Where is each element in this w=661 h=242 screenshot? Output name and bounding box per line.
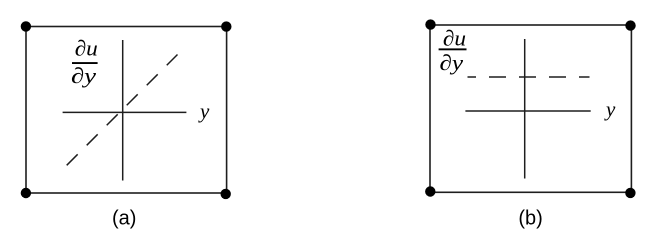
svg-text:(b): (b)	[518, 207, 542, 229]
svg-text:∂y: ∂y	[71, 63, 96, 88]
svg-text:y: y	[604, 97, 616, 121]
svg-text:∂u: ∂u	[75, 36, 98, 61]
svg-text:(a): (a)	[112, 207, 136, 229]
svg-text:∂y: ∂y	[439, 50, 463, 75]
svg-text:∂u: ∂u	[443, 26, 466, 51]
svg-text:y: y	[198, 99, 210, 123]
